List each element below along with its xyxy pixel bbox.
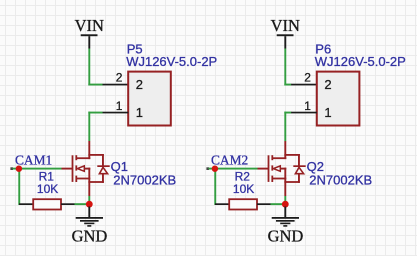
svg-text:1: 1 — [324, 105, 331, 120]
svg-text:1: 1 — [136, 105, 143, 120]
svg-text:VIN: VIN — [75, 16, 104, 35]
svg-text:10K: 10K — [37, 182, 58, 196]
svg-text:2N7002KB: 2N7002KB — [113, 173, 176, 188]
svg-text:CAM1: CAM1 — [15, 153, 52, 168]
svg-text:CAM2: CAM2 — [211, 153, 248, 168]
svg-text:GND: GND — [268, 227, 304, 246]
svg-text:VIN: VIN — [271, 16, 300, 35]
svg-text:GND: GND — [72, 227, 108, 246]
svg-text:1: 1 — [116, 99, 123, 113]
svg-text:2: 2 — [304, 71, 311, 85]
svg-text:2: 2 — [324, 77, 331, 92]
svg-text:WJ126V-5.0-2P: WJ126V-5.0-2P — [126, 54, 217, 69]
svg-text:2N7002KB: 2N7002KB — [309, 173, 372, 188]
svg-text:2: 2 — [136, 77, 143, 92]
svg-text:1: 1 — [304, 99, 311, 113]
svg-text:2: 2 — [116, 71, 123, 85]
svg-text:WJ126V-5.0-2P: WJ126V-5.0-2P — [315, 54, 406, 69]
svg-text:10K: 10K — [233, 182, 254, 196]
